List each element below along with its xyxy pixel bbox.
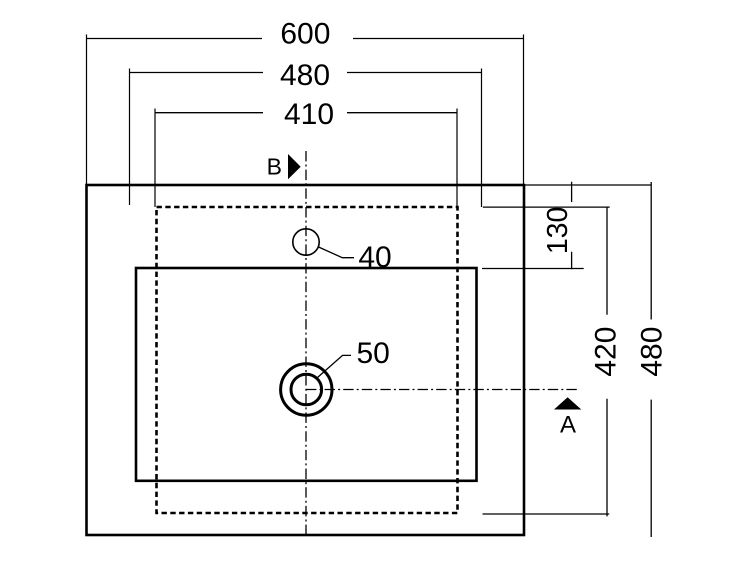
drain outer circle	[281, 364, 332, 415]
svg-text:480: 480	[280, 59, 330, 92]
svg-text:40: 40	[358, 241, 391, 274]
svg-text:B: B	[267, 154, 282, 180]
vertical centerline	[305, 151, 307, 535]
svg-text:410: 410	[284, 98, 334, 131]
extension line left 480	[129, 69, 131, 206]
extension line right 410	[456, 109, 458, 208]
extension line bowl-top level to right	[482, 268, 584, 270]
leader line for 50	[318, 355, 352, 377]
drain inner circle	[291, 374, 322, 405]
extension line left 410	[154, 109, 156, 208]
extension line dashed-bottom level to right	[483, 513, 610, 515]
section marker B triangle	[288, 154, 301, 179]
dimension line 480 right	[650, 182, 652, 537]
leader line for 40	[318, 247, 354, 258]
svg-text:600: 600	[280, 18, 330, 51]
bowl inner rectangle	[136, 268, 477, 481]
svg-text:A: A	[560, 412, 576, 439]
section marker A triangle	[554, 397, 581, 409]
extension line right 600	[523, 35, 525, 186]
svg-text:420: 420	[590, 327, 623, 377]
extension line right 480	[481, 69, 483, 208]
extension line dashed-top level to right	[483, 206, 610, 208]
basin outer rectangle	[87, 185, 525, 535]
horizontal centerline	[306, 389, 577, 391]
svg-text:130: 130	[542, 207, 574, 255]
tap hole circle	[293, 229, 319, 255]
dimension line 420	[606, 207, 608, 516]
extension line left 600	[86, 35, 88, 186]
svg-text:480: 480	[636, 327, 669, 377]
extension line top edge to right	[525, 184, 651, 186]
dashed mounting outline rectangle	[157, 207, 458, 513]
svg-text:50: 50	[357, 337, 390, 370]
dimension line 410	[155, 112, 457, 114]
dimension line 480 top	[130, 72, 482, 74]
dimension line 130	[571, 182, 573, 270]
dimension line 600	[87, 38, 524, 40]
